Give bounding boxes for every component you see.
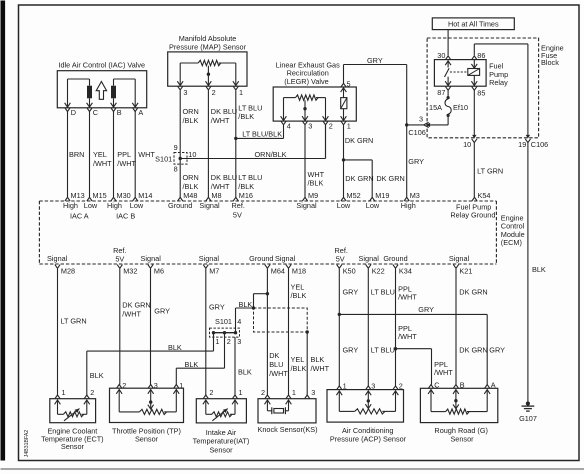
svg-text:Low: Low <box>337 201 351 210</box>
svg-text:GRY: GRY <box>418 305 434 314</box>
svg-text:K22: K22 <box>372 267 385 276</box>
svg-text:Sensor: Sensor <box>450 434 474 443</box>
svg-text:4: 4 <box>287 122 291 131</box>
svg-text:C: C <box>93 108 98 117</box>
svg-text:BLK: BLK <box>238 368 252 377</box>
svg-text:2: 2 <box>90 388 94 397</box>
svg-text:M18: M18 <box>292 267 306 276</box>
svg-text:DK GRN: DK GRN <box>122 300 150 309</box>
svg-text:High: High <box>63 201 78 210</box>
svg-text:M16: M16 <box>239 191 253 200</box>
svg-text:Signal: Signal <box>296 201 317 210</box>
svg-text:Low: Low <box>84 201 98 210</box>
svg-text:DK GRN: DK GRN <box>345 136 373 145</box>
svg-text:M6: M6 <box>154 267 164 276</box>
svg-text:2: 2 <box>329 122 333 131</box>
svg-text:/WHT: /WHT <box>93 159 112 168</box>
svg-text:GRY: GRY <box>209 303 225 312</box>
svg-text:/BLK: /BLK <box>291 364 307 373</box>
svg-text:GRY: GRY <box>343 346 359 355</box>
svg-text:M19: M19 <box>375 191 389 200</box>
svg-text:BLK: BLK <box>168 343 182 352</box>
svg-text:S101: S101 <box>155 154 172 163</box>
svg-text:M48: M48 <box>183 191 197 200</box>
svg-text:M30: M30 <box>117 191 131 200</box>
svg-text:Pressure (ACP) Sensor: Pressure (ACP) Sensor <box>330 434 407 443</box>
svg-text:5V: 5V <box>233 211 242 220</box>
svg-text:ORN: ORN <box>183 107 199 116</box>
svg-text:GRY: GRY <box>154 307 170 316</box>
svg-text:1: 1 <box>62 388 66 397</box>
svg-text:YEL: YEL <box>291 355 305 364</box>
svg-text:M28: M28 <box>61 267 75 276</box>
svg-text:K54: K54 <box>478 191 491 200</box>
svg-text:Relay Ground: Relay Ground <box>450 211 495 220</box>
svg-text:B: B <box>117 108 122 117</box>
svg-text:M15: M15 <box>93 191 107 200</box>
svg-text:GRY: GRY <box>343 287 359 296</box>
svg-text:4: 4 <box>237 317 241 326</box>
svg-text:Signal: Signal <box>449 254 470 263</box>
svg-text:/BLK: /BLK <box>291 291 307 300</box>
svg-text:(LEGR) Valve: (LEGR) Valve <box>284 77 328 86</box>
svg-text:/WHT: /WHT <box>117 159 136 168</box>
svg-text:M14: M14 <box>138 191 152 200</box>
svg-text:85: 85 <box>477 88 485 97</box>
svg-text:2: 2 <box>209 388 213 397</box>
svg-text:IAC B: IAC B <box>116 211 135 220</box>
svg-text:DK BLU: DK BLU <box>211 107 237 116</box>
svg-text:M7: M7 <box>209 267 219 276</box>
svg-text:3: 3 <box>237 337 241 346</box>
svg-text:LT GRN: LT GRN <box>477 166 503 175</box>
svg-text:/BLK: /BLK <box>183 116 199 125</box>
svg-text:Low: Low <box>366 201 380 210</box>
svg-text:87: 87 <box>437 88 445 97</box>
svg-text:/BLK: /BLK <box>308 179 324 188</box>
svg-text:/WHT: /WHT <box>398 332 417 341</box>
svg-text:1: 1 <box>239 88 243 97</box>
svg-text:/WHT: /WHT <box>211 116 230 125</box>
svg-text:BLK: BLK <box>532 265 546 274</box>
svg-text:GRY: GRY <box>367 56 383 65</box>
svg-text:/WHT: /WHT <box>122 309 141 318</box>
svg-text:5V: 5V <box>115 254 124 263</box>
svg-text:1: 1 <box>292 388 296 397</box>
svg-text:BLK: BLK <box>239 300 253 309</box>
svg-text:M32: M32 <box>123 267 137 276</box>
svg-text:DK: DK <box>269 351 279 360</box>
svg-text:10: 10 <box>463 140 471 149</box>
svg-text:Knock Sensor(KS): Knock Sensor(KS) <box>257 425 317 434</box>
svg-text:C: C <box>434 381 439 390</box>
svg-text:LT BLU: LT BLU <box>371 287 395 296</box>
svg-text:BLK: BLK <box>185 360 199 369</box>
svg-text:LT BLU: LT BLU <box>371 346 395 355</box>
svg-text:BLK: BLK <box>311 355 325 364</box>
svg-text:1: 1 <box>347 122 351 131</box>
svg-text:D: D <box>71 108 76 117</box>
svg-text:M3: M3 <box>410 191 420 200</box>
svg-text:Idle Air Control (IAC) Valve: Idle Air Control (IAC) Valve <box>58 61 145 70</box>
svg-text:Low: Low <box>130 201 144 210</box>
svg-text:Ef10: Ef10 <box>453 103 468 112</box>
svg-text:YEL: YEL <box>93 150 107 159</box>
svg-text:1: 1 <box>343 382 347 391</box>
svg-text:LT GRN: LT GRN <box>61 316 87 325</box>
svg-text:/BLK: /BLK <box>183 182 199 191</box>
svg-text:BRN: BRN <box>69 150 84 159</box>
svg-text:M64: M64 <box>271 267 285 276</box>
svg-text:Signal: Signal <box>141 254 162 263</box>
svg-text:2: 2 <box>261 388 265 397</box>
svg-text:C106: C106 <box>408 128 425 137</box>
svg-text:5: 5 <box>347 80 351 89</box>
svg-text:BLK: BLK <box>90 371 104 380</box>
svg-text:DK BLU: DK BLU <box>211 173 237 182</box>
svg-text:Signal: Signal <box>199 254 220 263</box>
svg-text:M8: M8 <box>211 191 221 200</box>
svg-text:Pressure (MAP) Sensor: Pressure (MAP) Sensor <box>169 42 247 51</box>
svg-text:DK GRN: DK GRN <box>459 346 487 355</box>
svg-text:/BLK: /BLK <box>238 112 254 121</box>
svg-text:Signal: Signal <box>359 254 380 263</box>
svg-text:M13: M13 <box>71 191 85 200</box>
svg-text:PPL: PPL <box>117 150 131 159</box>
svg-text:Hot at All Times: Hot at All Times <box>448 19 499 28</box>
svg-text:2: 2 <box>122 381 126 390</box>
svg-text:M9: M9 <box>308 191 318 200</box>
svg-text:19: 19 <box>518 140 526 149</box>
svg-text:Ground: Ground <box>249 254 273 263</box>
svg-text:J4B31BFA2: J4B31BFA2 <box>24 430 30 458</box>
svg-text:K34: K34 <box>399 267 412 276</box>
svg-text:9: 9 <box>174 143 178 152</box>
svg-text:Ref.: Ref. <box>232 201 245 210</box>
svg-text:K21: K21 <box>459 267 472 276</box>
svg-text:K50: K50 <box>343 267 356 276</box>
svg-text:10: 10 <box>188 150 196 159</box>
svg-text:A: A <box>138 108 143 117</box>
svg-text:DK GRN: DK GRN <box>459 287 487 296</box>
svg-text:3: 3 <box>154 381 158 390</box>
svg-text:Temperature(IAT): Temperature(IAT) <box>193 437 250 446</box>
svg-text:High: High <box>107 201 122 210</box>
svg-text:1: 1 <box>215 337 219 346</box>
svg-text:Sensor: Sensor <box>61 442 85 451</box>
svg-text:Sensor: Sensor <box>135 435 159 444</box>
svg-text:G107: G107 <box>519 414 537 423</box>
svg-text:GRY: GRY <box>489 346 505 355</box>
svg-text:Ground: Ground <box>383 254 407 263</box>
svg-text:/WHT: /WHT <box>211 182 230 191</box>
svg-text:2: 2 <box>399 382 403 391</box>
svg-text:Signal: Signal <box>47 254 68 263</box>
svg-text:Block: Block <box>541 58 559 67</box>
svg-text:Signal: Signal <box>275 254 296 263</box>
svg-text:/BLK: /BLK <box>238 182 254 191</box>
svg-text:IAC A: IAC A <box>70 211 89 220</box>
svg-text:/WHT: /WHT <box>311 364 330 373</box>
svg-text:ORN/BLK: ORN/BLK <box>255 150 287 159</box>
svg-text:BLU: BLU <box>269 360 283 369</box>
svg-text:1: 1 <box>179 381 183 390</box>
svg-text:High: High <box>401 201 416 210</box>
svg-text:S101: S101 <box>215 317 232 326</box>
svg-text:C106: C106 <box>531 140 548 149</box>
svg-text:3: 3 <box>183 88 187 97</box>
svg-text:LT BLU/BLK: LT BLU/BLK <box>242 130 282 139</box>
svg-text:ORN: ORN <box>183 173 199 182</box>
svg-text:DK GRN: DK GRN <box>345 174 373 183</box>
svg-text:A: A <box>491 381 496 390</box>
svg-text:3: 3 <box>371 382 375 391</box>
svg-text:86: 86 <box>477 51 485 60</box>
svg-text:3: 3 <box>419 115 423 124</box>
svg-text:/WHT: /WHT <box>269 369 288 378</box>
svg-text:WHT: WHT <box>138 150 155 159</box>
svg-text:B: B <box>460 381 465 390</box>
svg-text:/WHT: /WHT <box>434 368 453 377</box>
svg-text:1: 1 <box>239 388 243 397</box>
svg-text:Intake Air: Intake Air <box>206 428 237 437</box>
svg-text:DK GRN: DK GRN <box>376 174 404 183</box>
svg-text:2: 2 <box>227 337 231 346</box>
svg-text:Relay: Relay <box>489 78 508 87</box>
svg-text:15A: 15A <box>429 103 442 112</box>
svg-text:LT BLU: LT BLU <box>238 173 262 182</box>
svg-text:GRY: GRY <box>408 157 424 166</box>
svg-text:3: 3 <box>308 122 312 131</box>
svg-text:Sensor: Sensor <box>209 446 233 455</box>
svg-text:30: 30 <box>437 51 445 60</box>
svg-text:5V: 5V <box>336 254 345 263</box>
svg-text:(ECM): (ECM) <box>501 238 522 247</box>
svg-text:8: 8 <box>174 165 178 174</box>
svg-text:/WHT: /WHT <box>398 293 417 302</box>
svg-text:Ground: Ground <box>168 201 192 210</box>
svg-text:2: 2 <box>212 88 216 97</box>
svg-text:Signal: Signal <box>199 201 220 210</box>
svg-text:3: 3 <box>311 388 315 397</box>
svg-text:M52: M52 <box>347 191 361 200</box>
